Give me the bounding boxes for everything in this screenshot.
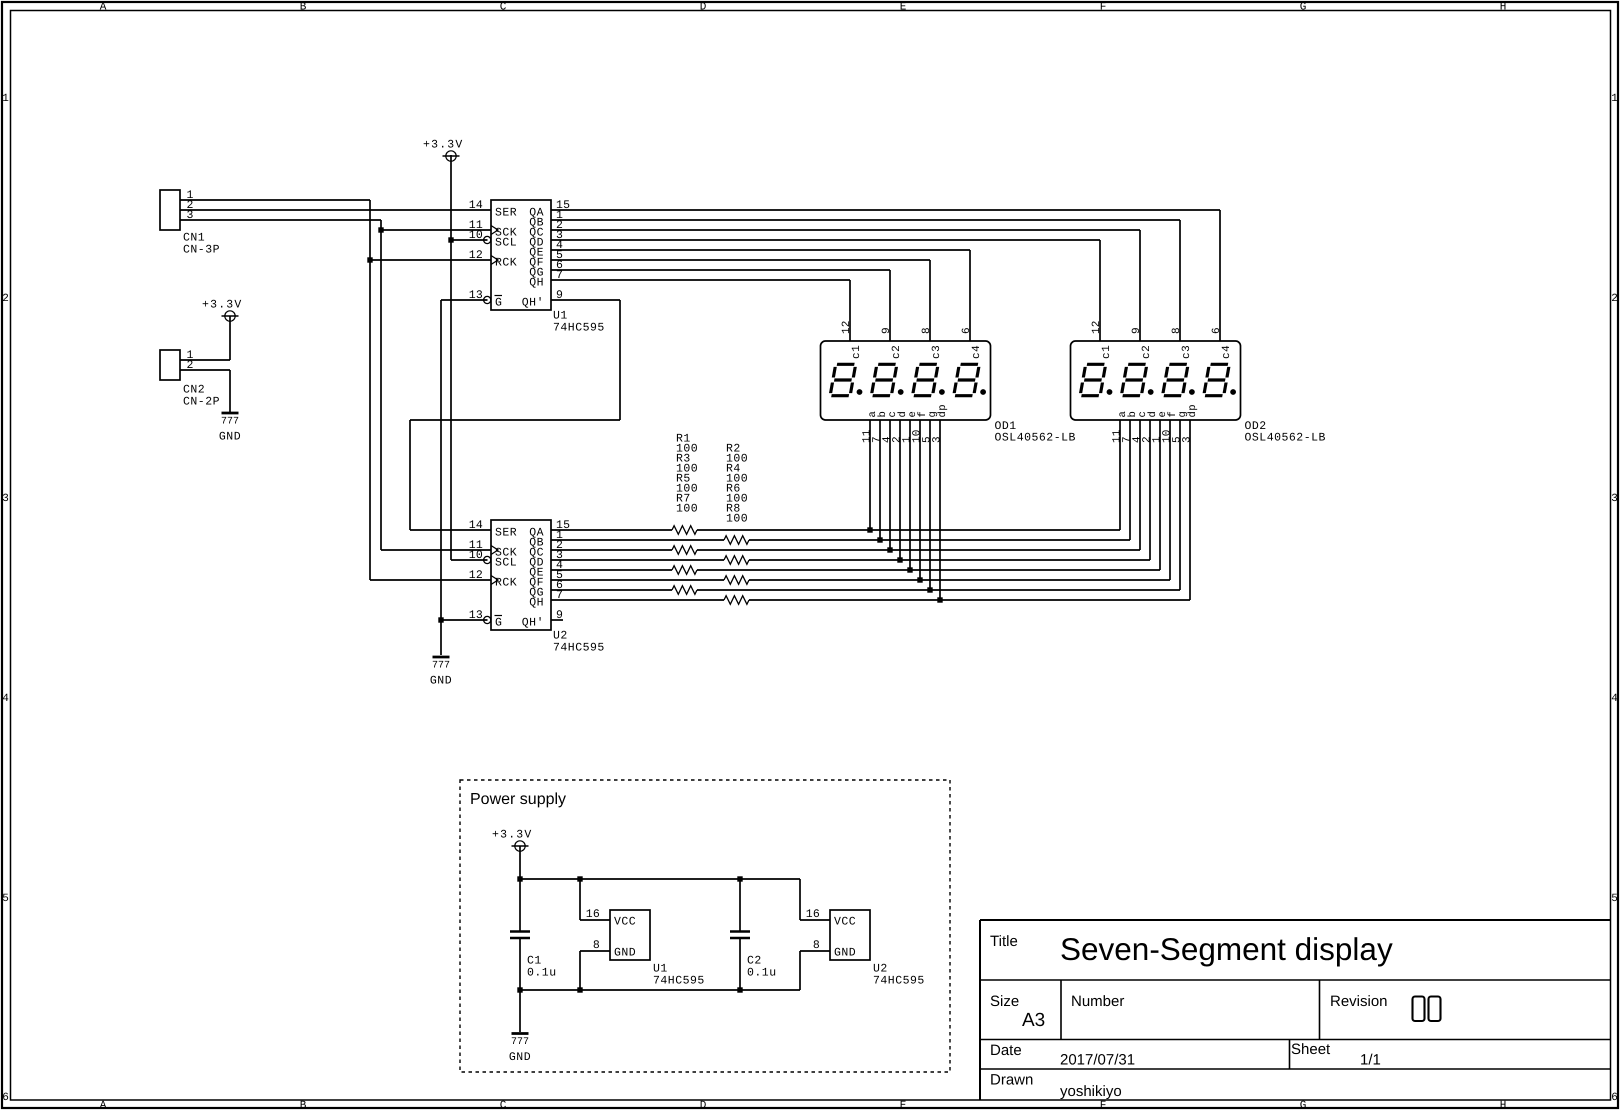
junction OD1 segment pin on row 6 [917,577,922,582]
svg-text:4: 4 [2,693,9,705]
junction bottom rail at C2 [737,987,742,992]
svg-text:D: D [700,2,707,14]
junction +3.3V at U1 SCL [448,237,453,242]
svg-text:G: G [495,617,502,630]
svg-text:SER: SER [495,207,517,220]
power +3.3V symbol P3 [492,829,533,852]
wire CN1 pin3 to SCK net [180,220,381,550]
wire +3.3V branch to U1 SCL pin 10 [451,239,488,241]
svg-text:RCK: RCK [495,577,517,590]
wire segment row from U2 QB [551,420,1130,540]
svg-text:74HC595: 74HC595 [553,642,605,655]
resistor R1 100 [672,526,697,535]
svg-text:QH: QH [529,597,544,610]
svg-text:8: 8 [593,939,600,952]
wire bottom rail [520,989,800,991]
svg-text:2: 2 [2,293,9,305]
junction SCK net at U1 [378,227,383,232]
wire SCK branch to U1 pin 11 [381,229,491,231]
ground symbol power supply [509,1034,531,1065]
resistor R3 100 [672,546,697,555]
shift register U2 74HC595 [469,519,605,655]
wire segment row from U2 QG [551,420,1180,590]
svg-text:100: 100 [726,513,748,526]
svg-text:10: 10 [469,549,483,562]
svg-text:GND: GND [614,947,636,960]
svg-text:Title: Title [990,933,1018,950]
wire U1 QH to display digit pin [551,280,850,341]
svg-text:6: 6 [1211,327,1223,334]
svg-text:9: 9 [1131,327,1143,334]
svg-text:c4: c4 [971,345,983,359]
svg-text:777: 777 [511,1037,529,1048]
wire U2 QH' pin 9 stub [551,619,563,621]
resistor R8 100 [724,596,749,605]
svg-text:13: 13 [469,609,483,622]
junction RCK net at U1 [367,257,372,262]
svg-text:+3.3V: +3.3V [423,139,464,152]
capacitor C1 0.1u [510,879,557,990]
wire segment row from U2 QA [551,420,1120,530]
seven-segment display module OD1 OSL40562-LB [821,341,991,420]
svg-text:9: 9 [881,327,893,334]
svg-text:0.1u: 0.1u [747,967,777,980]
wire OD1 bottom pin 8 [939,420,941,600]
svg-text:G: G [1300,2,1307,14]
wire CN2 pin1 to +3.3V [180,316,230,360]
svg-text:12: 12 [841,320,853,334]
power part U2 VCC/GND box [830,910,925,988]
wire GND branch to U2 G pin 13 [441,619,488,621]
svg-text:VCC: VCC [834,916,856,929]
svg-text:Seven-Segment display: Seven-Segment display [1060,931,1393,967]
junction bottom rail at C1 [517,987,522,992]
svg-text:GND: GND [219,431,241,444]
ground symbol near U2 [430,657,452,688]
wire U1 QA to display digit pin [551,210,1220,341]
wire RCK branch to U2 pin 12 [370,579,491,581]
svg-text:16: 16 [806,908,820,921]
svg-text:dp: dp [1187,404,1199,418]
pin numbers OD1 top digit pins [841,320,973,334]
svg-text:2017/07/31: 2017/07/31 [1060,1052,1135,1069]
svg-text:SCL: SCL [495,237,517,250]
svg-text:C: C [500,2,507,14]
label OD2 [1245,420,1326,445]
svg-text:13: 13 [469,289,483,302]
wire U1 G pin 13 to GND rail [441,300,488,655]
svg-text:SCL: SCL [495,557,517,570]
svg-text:Number: Number [1071,993,1124,1010]
svg-text:+3.3V: +3.3V [492,829,533,842]
svg-text:GND: GND [430,675,452,688]
wire CN1 pin2 to U1 SER pin 14 [180,209,491,211]
svg-text:QH': QH' [522,617,544,630]
svg-text:14: 14 [469,519,483,532]
wire U1 QF to display digit pin [551,260,930,341]
svg-text:1: 1 [2,93,9,105]
svg-text:4: 4 [1611,693,1618,705]
svg-text:c1: c1 [1101,345,1113,359]
wire U1 QE to display digit pin [551,250,970,341]
revision value 00 [1413,997,1441,1022]
svg-text:B: B [300,2,307,14]
svg-text:+3.3V: +3.3V [202,299,243,312]
svg-text:74HC595: 74HC595 [653,975,705,988]
svg-text:H: H [1500,2,1507,14]
wire U1 VCC pin 16 [580,879,610,921]
svg-text:16: 16 [586,908,600,921]
svg-text:6: 6 [961,327,973,334]
wire OD1 bottom pin 5 [909,420,911,570]
svg-text:3: 3 [1182,436,1194,443]
svg-text:OSL40562-LB: OSL40562-LB [1245,432,1326,445]
svg-text:B: B [300,1100,307,1110]
svg-text:A3: A3 [1022,1010,1045,1031]
svg-text:Sheet: Sheet [1291,1041,1331,1058]
wire OD1 bottom pin 2 [879,420,881,540]
junction GND net at U2 G pin [438,617,443,622]
svg-text:H: H [1500,1100,1507,1110]
junction top rail at C2 [737,876,742,881]
svg-text:E: E [900,2,907,14]
svg-text:Date: Date [990,1042,1022,1059]
svg-text:c2: c2 [1141,345,1153,359]
wire OD1 bottom pin 1 [869,420,871,530]
labels R2 R4 R6 R8 values [726,443,748,526]
svg-text:74HC595: 74HC595 [553,322,605,335]
resistor R4 100 [724,556,749,565]
svg-text:10: 10 [469,229,483,242]
wire CN1 pin1 to RCK net [180,200,370,580]
junction top rail at C1 [517,876,522,881]
svg-text:QH: QH [529,277,544,290]
svg-text:1/1: 1/1 [1360,1052,1381,1069]
wire +3.3V to top rail [519,846,521,879]
wire OD1 bottom pin 3 [889,420,891,550]
wire SCK branch to U2 pin 11 [381,549,491,551]
pin numbers OD1 bottom segment pins [862,429,944,443]
svg-text:6: 6 [1611,1092,1618,1104]
svg-text:SER: SER [495,527,517,540]
svg-text:CN-3P: CN-3P [183,244,220,257]
svg-text:12: 12 [469,569,483,582]
seven-segment display module OD2 OSL40562-LB [1071,341,1241,420]
svg-text:E: E [900,1100,907,1110]
svg-text:8: 8 [921,327,933,334]
wire CN2 pin2 to GND [180,370,230,412]
wire U1 GND pin 8 [580,939,610,990]
svg-text:Revision: Revision [1330,993,1388,1010]
svg-text:G: G [495,297,502,310]
wire U1 QD to display digit pin [551,240,1100,341]
power +3.3V symbol P2 [202,299,243,322]
wire segment row from U2 QH [551,420,1190,600]
wire segment row from U2 QD [551,420,1150,560]
junction OD1 segment pin on row 7 [927,587,932,592]
resistor R2 100 [724,536,749,545]
svg-text:0.1u: 0.1u [527,967,557,980]
svg-text:5: 5 [2,893,9,905]
capacitor C2 0.1u [730,879,777,990]
svg-text:c4: c4 [1221,345,1233,359]
svg-text:VCC: VCC [614,916,636,929]
svg-text:c1: c1 [851,345,863,359]
power part U1 VCC/GND box [610,910,705,988]
svg-text:3: 3 [2,493,9,505]
wire +3.3V rail down to SCL pins [450,155,452,560]
svg-text:5: 5 [1611,893,1618,905]
svg-text:D: D [700,1100,707,1110]
junction OD1 segment pin on row 2 [877,537,882,542]
svg-text:OSL40562-LB: OSL40562-LB [995,432,1076,445]
svg-text:c3: c3 [931,345,943,359]
svg-text:C: C [500,1100,507,1110]
svg-text:3: 3 [1611,493,1618,505]
wire segment row from U2 QE [551,420,1160,570]
svg-text:12: 12 [1091,320,1103,334]
svg-text:yoshikiyo: yoshikiyo [1060,1083,1122,1100]
wire OD1 bottom pin 4 [899,420,901,560]
svg-text:777: 777 [432,661,450,672]
svg-text:QH': QH' [522,297,544,310]
pin numbers OD2 top digit pins [1091,320,1223,334]
svg-text:8: 8 [1171,327,1183,334]
pin numbers OD2 bottom segment pins [1112,429,1194,443]
svg-text:14: 14 [469,199,483,212]
wire segment row from U2 QF [551,420,1170,580]
wire U2 GND pin 8 [800,939,830,990]
resistor R7 100 [672,586,697,595]
svg-text:GND: GND [834,947,856,960]
junction bottom rail at U1 GND [577,987,582,992]
svg-text:100: 100 [676,503,698,516]
wire U2 VCC pin 16 [800,879,830,921]
svg-text:3: 3 [932,436,944,443]
wire U1 QH' pin 9 cascade to U2 SER pin 14 [410,300,620,530]
title block frame [980,920,1611,1100]
label OD1 [995,420,1076,445]
resistor R5 100 [672,566,697,575]
svg-text:8: 8 [813,939,820,952]
shift register U1 74HC595 [469,199,605,335]
svg-text:RCK: RCK [495,257,517,270]
svg-text:c2: c2 [891,345,903,359]
junction OD1 segment pin on row 8 [937,597,942,602]
svg-text:12: 12 [469,249,483,262]
wire bottom rail to ground [519,990,521,1032]
power supply section box [460,780,950,1072]
junction OD1 segment pin on row 3 [887,547,892,552]
wire OD1 bottom pin 6 [919,420,921,580]
svg-text:dp: dp [937,404,949,418]
svg-text:GND: GND [509,1051,531,1064]
junction OD1 segment pin on row 4 [897,557,902,562]
junction top rail at U1 VCC [577,876,582,881]
wire U1 QG to display digit pin [551,270,890,341]
svg-text:F: F [1100,1100,1107,1110]
svg-text:Drawn: Drawn [990,1072,1033,1089]
svg-text:6: 6 [2,1092,9,1104]
svg-text:2: 2 [1611,293,1618,305]
power +3.3V symbol P1 [423,139,464,162]
wire top rail [520,878,800,880]
wire segment row from U2 QC [551,420,1140,550]
svg-text:F: F [1100,2,1107,14]
wire U1 QC to display digit pin [551,230,1140,341]
junction OD1 segment pin on row 5 [907,567,912,572]
resistor R6 100 [724,576,749,585]
svg-text:1: 1 [1611,93,1618,105]
svg-text:c3: c3 [1181,345,1193,359]
svg-text:G: G [1300,1100,1307,1110]
connector CN1 CN-3P [160,189,220,257]
junction OD1 segment pin on row 1 [867,527,872,532]
wire OD1 bottom pin 7 [929,420,931,590]
wire +3.3V branch to U2 SCL pin 10 [451,559,488,561]
labels R1 R3 R5 R7 values [676,433,698,516]
svg-text:Size: Size [990,993,1019,1010]
svg-text:Power supply: Power supply [470,791,566,808]
ground symbol near CN2 [219,413,241,444]
wire U1 QB to display digit pin [551,220,1180,341]
svg-text:74HC595: 74HC595 [873,975,925,988]
svg-text:A: A [100,2,107,14]
connector CN2 CN-2P [160,349,220,409]
svg-text:777: 777 [221,417,239,428]
svg-text:A: A [100,1100,107,1110]
svg-text:CN-2P: CN-2P [183,396,220,409]
wire RCK branch to U1 pin 12 [370,259,491,261]
